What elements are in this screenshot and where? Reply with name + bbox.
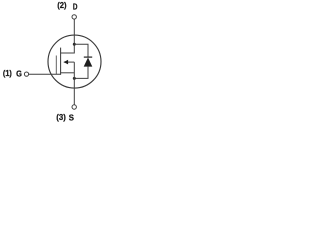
wire diode bottom branch xyxy=(74,66,88,78)
terminal S (pin 3) xyxy=(72,105,76,109)
terminal D (pin 2) xyxy=(72,15,76,19)
wire source vertical xyxy=(73,62,75,105)
gate bar xyxy=(55,56,57,75)
svg-text:(1): (1) xyxy=(3,68,12,78)
body arrow (substrate, points to channel) xyxy=(64,60,75,65)
wire diode top branch xyxy=(74,44,88,57)
node junction drain-diode xyxy=(73,43,76,46)
svg-text:D: D xyxy=(73,1,78,11)
svg-text:G: G xyxy=(16,68,22,78)
wire drain vertical xyxy=(61,19,75,53)
terminal G (pin 1) xyxy=(24,72,28,76)
svg-text:S: S xyxy=(69,112,75,122)
body diode D1 cathode bar xyxy=(84,56,92,58)
svg-text:(2): (2) xyxy=(57,0,66,10)
node junction source-diode xyxy=(73,77,76,80)
channel line xyxy=(60,48,62,75)
svg-text:(3): (3) xyxy=(56,112,66,122)
wire gate horizontal xyxy=(29,73,61,75)
transistor body circle Q1 xyxy=(48,35,101,88)
wire source stub xyxy=(61,72,75,74)
body diode D1 anode triangle xyxy=(84,58,93,67)
